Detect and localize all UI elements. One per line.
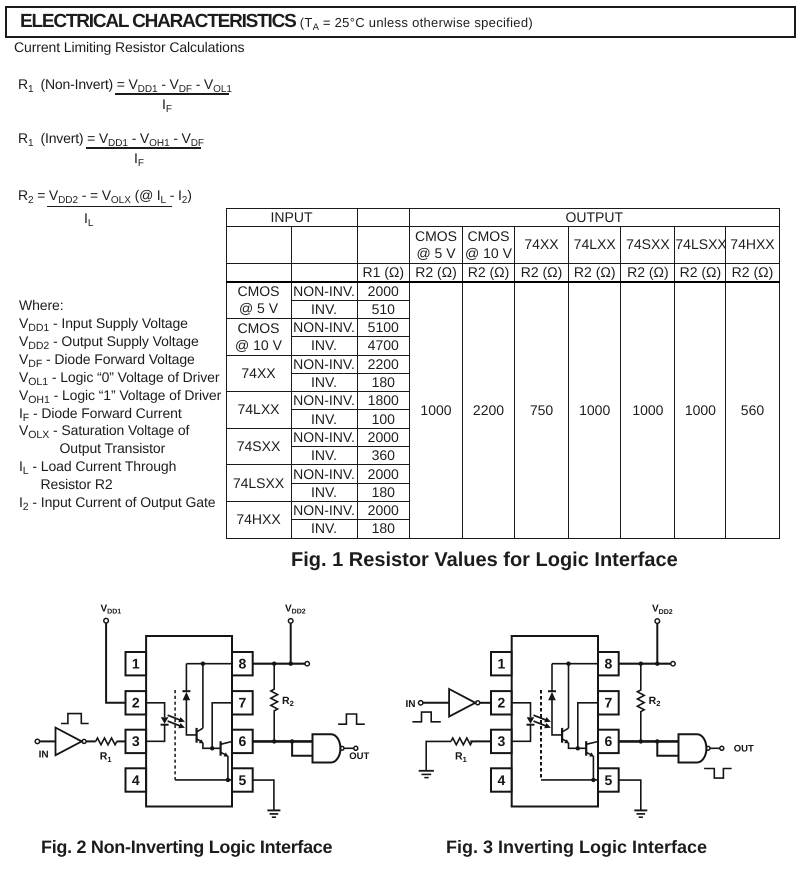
transistor Q1 photodetector — [197, 728, 204, 744]
pin 8 (Fig.3) — [598, 652, 619, 675]
supply terminal VDD2 — [285, 603, 306, 623]
svg-text:VDD1: VDD1 — [101, 603, 122, 615]
terminal OUT — [349, 746, 369, 762]
IC package U5 optocoupler body (Fig.3) — [512, 636, 598, 807]
output waveform symbol — [338, 714, 365, 724]
svg-text:6: 6 — [605, 733, 613, 749]
diode D4 (Fig.3) — [548, 691, 556, 700]
junction Q4 base node (Fig.3) — [576, 746, 580, 750]
pin 8 — [232, 652, 253, 675]
wire IN to buffer — [40, 740, 56, 742]
supply terminal VDD1 — [101, 603, 122, 623]
LED D1 — [161, 717, 169, 725]
input waveform symbol — [61, 714, 89, 724]
junction pin 5 rail — [226, 778, 230, 782]
svg-text:IN: IN — [39, 750, 49, 761]
optical isolation barrier (dashed) — [174, 690, 176, 780]
ground symbol (Fig.3) — [634, 810, 647, 817]
formula R2 — [18, 186, 192, 204]
light emission arrows — [168, 715, 185, 728]
svg-text:6: 6 — [239, 733, 247, 749]
svg-text:2: 2 — [498, 695, 506, 711]
junction top rail / Q3 collector (Fig.3) — [566, 662, 570, 666]
junction NAND input branch — [290, 739, 294, 743]
svg-text:5: 5 — [239, 772, 247, 788]
svg-text:R1: R1 — [100, 751, 112, 764]
formula R1 invert — [18, 129, 204, 147]
pin 5 — [232, 768, 253, 791]
where list — [19, 297, 221, 512]
wire internal pin 5 rail — [175, 779, 232, 781]
light emission arrows (Fig.3) — [534, 715, 551, 728]
Fig.2 caption — [41, 836, 332, 858]
resistor values table — [226, 208, 780, 538]
svg-text:4: 4 — [132, 772, 140, 788]
wire internal pin 5 rail (Fig.3) — [541, 779, 598, 781]
wire pin 8 external rail — [253, 663, 305, 665]
svg-text:5: 5 — [605, 772, 613, 788]
svg-text:3: 3 — [132, 733, 140, 749]
wire R1 to pin 3 — [117, 740, 126, 742]
wire VDD1 to pin 2 — [106, 623, 125, 703]
wire top rail to diode cathode — [185, 664, 187, 692]
wire pin 8 external rail (Fig.3) — [619, 663, 671, 665]
svg-text:IN: IN — [406, 699, 416, 710]
svg-text:OUT: OUT — [734, 744, 754, 755]
wire NAND output (Fig.3) — [710, 747, 720, 749]
wire VDD2 down to pin 8 rail — [290, 623, 292, 664]
wire internal top rail to pin 8 — [186, 663, 232, 665]
svg-text:7: 7 — [239, 695, 247, 711]
terminal IN (Fig.3) — [406, 699, 423, 710]
junction R2 bottom — [272, 739, 276, 743]
wire internal top rail to pin 8 (Fig.3) — [552, 663, 598, 665]
svg-text:2: 2 — [132, 695, 140, 711]
wire pin 2 to LED anode (Fig.3) — [512, 703, 531, 717]
wire top rail to diode cathode (Fig.3) — [551, 664, 553, 692]
svg-text:VDD2: VDD2 — [285, 603, 306, 615]
transistor Q2 output — [221, 741, 232, 756]
wire buffer to R1 — [86, 740, 96, 742]
open terminal right of pin 8 (Fig.3) — [671, 662, 675, 666]
NAND gate U3 — [313, 734, 345, 762]
pin 6 — [232, 730, 253, 753]
resistor R1 — [96, 738, 117, 745]
pin 1 — [126, 652, 147, 675]
svg-text:7: 7 — [605, 695, 613, 711]
buffer/inverter U1 input driver — [56, 728, 87, 756]
svg-text:R1: R1 — [455, 751, 467, 764]
svg-text:4: 4 — [498, 772, 506, 788]
Fig.3 caption — [446, 836, 707, 858]
output waveform symbol inverted (Fig.3) — [704, 769, 732, 779]
wire Q1 emitter to Q2 base — [203, 743, 220, 749]
wire Q1 collector to top rail — [202, 664, 204, 729]
pin 4 (Fig.3) — [491, 768, 512, 791]
ground symbol left (Fig.3) — [419, 771, 434, 778]
svg-text:OUT: OUT — [349, 751, 369, 762]
wire buffer to pin 2 (Fig.3) — [480, 702, 491, 704]
wire R1 to pin 3 (Fig.3) — [470, 740, 491, 742]
svg-text:R2: R2 — [649, 695, 661, 708]
junction R2 top — [272, 662, 276, 666]
svg-text:VDD2: VDD2 — [652, 604, 673, 616]
transistor Q3 photodetector (Fig.3) — [562, 728, 569, 744]
wire LED cathode to pin 3 (Fig.3) — [512, 725, 531, 742]
pin 3 — [126, 730, 147, 753]
wire NAND output — [344, 747, 354, 749]
wire ground to R1 (Fig.3) — [426, 741, 451, 770]
wire Q2 emitter down to pin 5 rail — [227, 756, 229, 780]
wire pin 6 external rail (Fig.3) — [619, 740, 679, 743]
pin 4 — [126, 768, 147, 791]
pin 7 — [232, 691, 253, 714]
Fig.1 caption — [291, 548, 678, 572]
junction VDD2 / pin 8 rail — [289, 662, 293, 666]
input waveform symbol (Fig.3) — [412, 712, 440, 722]
buffer/inverter U4 input driver (Fig.3) — [449, 689, 480, 717]
pin 6 (Fig.3) — [598, 730, 619, 753]
svg-text:3: 3 — [498, 733, 506, 749]
wire NAND lower input — [292, 741, 312, 755]
svg-text:8: 8 — [605, 656, 613, 672]
wire pin 6 external rail — [253, 740, 313, 743]
diode D2 — [182, 691, 190, 700]
ground symbol — [267, 810, 280, 817]
wire diode anode to Q1 base — [186, 700, 195, 735]
resistor R2 — [271, 664, 278, 742]
wire pin 5 to ground — [253, 780, 274, 810]
terminal IN — [35, 739, 48, 760]
NAND gate U6 (Fig.3) — [679, 734, 710, 762]
wire Q4 emitter down to pin 5 rail (Fig.3) — [592, 756, 594, 780]
header box — [5, 6, 796, 38]
optical isolation barrier dashed (Fig.3) — [540, 690, 542, 780]
IC package U2 optocoupler body — [146, 636, 232, 807]
junction R2 bottom (Fig.3) — [639, 739, 643, 743]
pin 2 — [126, 691, 147, 714]
supply terminal VDD2 (Fig.3) — [652, 604, 673, 624]
junction VDD2 / pin 8 rail (Fig.3) — [655, 662, 659, 666]
wire pin 5 to ground (Fig.3) — [619, 780, 641, 810]
pin 7 (Fig.3) — [598, 691, 619, 714]
pin 3 (Fig.3) — [491, 730, 512, 753]
wire Q3 collector to top rail (Fig.3) — [568, 664, 570, 729]
wire diode anode to Q3 base (Fig.3) — [552, 700, 561, 735]
wire VDD2 down to pin 8 rail (Fig.3) — [656, 623, 658, 663]
body intro — [14, 39, 244, 55]
wire LED cathode to pin 3 — [146, 725, 165, 742]
resistor R2 (Fig.3) — [637, 664, 644, 742]
transistor Q4 output (Fig.3) — [586, 741, 598, 756]
wire pin 7 to Q2 base node — [212, 703, 232, 749]
junction Q2 base node — [210, 746, 214, 750]
open terminal right of pin 8 — [305, 662, 309, 666]
junction pin 5 rail (Fig.3) — [591, 778, 595, 782]
wire pin 2 to LED anode — [146, 703, 165, 717]
terminal OUT (Fig.3) — [720, 744, 754, 755]
pin 1 (Fig.3) — [491, 652, 512, 675]
svg-text:8: 8 — [239, 656, 247, 672]
pin 5 (Fig.3) — [598, 768, 619, 791]
junction top rail / Q1 collector — [201, 662, 205, 666]
pin 2 (Fig.3) — [491, 691, 512, 714]
wire NAND lower input (Fig.3) — [657, 741, 678, 755]
svg-text:1: 1 — [132, 656, 140, 672]
wire Q3 emitter to Q4 base (Fig.3) — [569, 743, 586, 749]
junction R2 top (Fig.3) — [639, 662, 643, 666]
resistor R1 (Fig.3) — [451, 738, 472, 745]
svg-text:1: 1 — [498, 656, 506, 672]
formula R1 non-invert — [18, 75, 232, 93]
LED D3 (Fig.3) — [527, 717, 535, 725]
svg-text:R2: R2 — [282, 695, 294, 708]
wire IN to buffer (Fig.3) — [423, 702, 449, 704]
junction NAND input branch (Fig.3) — [655, 739, 659, 743]
wire pin 7 to Q4 base node (Fig.3) — [578, 703, 598, 749]
